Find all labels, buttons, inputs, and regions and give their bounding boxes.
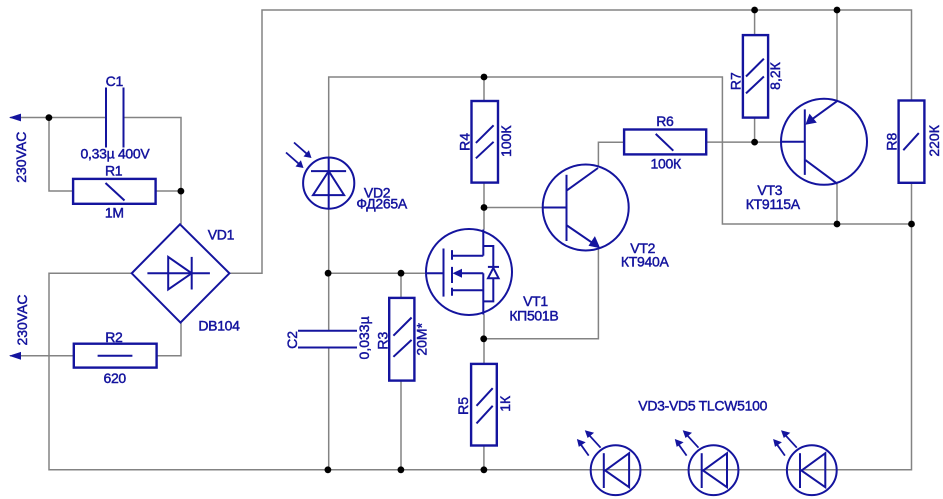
- wire: R4 top lead: [483, 77, 485, 101]
- MOSFET VT1: [426, 229, 512, 315]
- wire: AC input 2 to R2 left: [10, 355, 74, 357]
- capacitor C1: [106, 88, 124, 148]
- svg-text:100К: 100К: [651, 156, 682, 172]
- resistor R5: [471, 364, 497, 446]
- svg-text:220К: 220К: [926, 124, 942, 156]
- svg-text:C2: C2: [284, 331, 300, 349]
- svg-text:100К: 100К: [498, 125, 514, 157]
- node R7/R6/VT3 base: [751, 139, 758, 146]
- transistor VT3: [781, 99, 867, 185]
- node AC1/C1 left: [46, 114, 53, 121]
- resistor R8: [899, 101, 925, 183]
- svg-text:КТ940А: КТ940А: [621, 254, 670, 270]
- resistor R1: [73, 179, 156, 204]
- svg-text:R3: R3: [374, 332, 390, 350]
- wire: R1 right lead: [156, 190, 181, 192]
- svg-text:ФД265А: ФД265А: [356, 196, 408, 212]
- wire: R1 left leg: [49, 118, 73, 192]
- svg-text:КП501В: КП501В: [509, 307, 558, 323]
- photodiode VD2: [286, 143, 354, 209]
- LED VD5: [773, 430, 837, 495]
- svg-text:R2: R2: [105, 329, 123, 345]
- wire: mid rail y=77 from VD2 top, right end down to y=224 rail to R8 bottom: [329, 77, 912, 224]
- AC arrow 2: [9, 352, 21, 360]
- wire: R4 bottom to VT1 drain: [483, 183, 485, 230]
- LED VD4: [675, 430, 739, 495]
- node R3 bottom on bottom rail: [398, 466, 405, 473]
- wire: gate wire node to VT1: [328, 272, 427, 274]
- node C2 bottom on bottom rail: [325, 466, 332, 473]
- resistor R4: [472, 101, 499, 183]
- wire: VT3 emitter to top rail: [836, 10, 838, 100]
- node R7 top on top rail: [751, 7, 758, 14]
- svg-text:VD3-VD5 TLCW5100: VD3-VD5 TLCW5100: [638, 398, 767, 414]
- svg-text:1К: 1К: [497, 395, 513, 412]
- node R3 top / gate wire: [398, 270, 405, 277]
- resistor R7: [743, 35, 768, 118]
- bridge rectifier VD1: [132, 224, 230, 322]
- wire: VT2 emitter down and left to source node: [484, 248, 599, 339]
- svg-text:C1: C1: [106, 73, 124, 89]
- svg-text:620: 620: [103, 370, 126, 386]
- wire: drain node to VT2 base: [484, 207, 543, 209]
- wire: VT3 collector to y=224 rail: [836, 184, 838, 225]
- AC arrow 1: [9, 114, 21, 122]
- node R4 top on mid rail: [481, 74, 488, 81]
- wire: R8 bottom to bottom rail, bottom rail to left riser up to bridge left vertex: [49, 183, 912, 470]
- node R4 bottom / VT1 drain / VT2 base: [481, 204, 488, 211]
- svg-text:R1: R1: [105, 163, 123, 179]
- resistor R6: [624, 130, 706, 155]
- svg-text:VD1: VD1: [208, 227, 235, 243]
- svg-text:20M*: 20M*: [414, 322, 430, 355]
- wire: bridge right vertex up to top rail and down to R8 top: [229, 10, 911, 273]
- svg-text:R7: R7: [727, 72, 743, 90]
- svg-text:R6: R6: [656, 113, 674, 129]
- resistor R3: [389, 298, 414, 381]
- node VT3 collector on y=224 rail: [834, 221, 841, 228]
- node C1 right / R1 right / bridge top: [178, 188, 185, 195]
- svg-text:R8: R8: [884, 133, 900, 151]
- svg-text:1M: 1M: [105, 205, 124, 221]
- wire: R3 bottom lead to bottom rail: [400, 381, 402, 470]
- node VD2 / gate wire: [325, 270, 332, 277]
- wire: R6 right to VT3 base: [706, 141, 781, 143]
- node VT3 emitter on top rail: [834, 7, 841, 14]
- wire: R3 top lead: [400, 273, 402, 298]
- svg-text:0,33µ 400V: 0,33µ 400V: [81, 146, 151, 162]
- svg-text:8,2К: 8,2К: [767, 61, 783, 89]
- wire: R2 right to bridge bottom vertex: [156, 323, 181, 356]
- wire: R5 bottom to bottom rail: [483, 446, 485, 470]
- node VT1 source / VT2 emitter / R5: [480, 335, 487, 342]
- svg-text:230VAC: 230VAC: [14, 294, 30, 345]
- node R8 bottom on y=224 rail: [908, 221, 915, 228]
- svg-text:R4: R4: [457, 133, 473, 151]
- wire: AC input 1 to C1 left plate: [10, 117, 106, 119]
- LED VD3: [577, 430, 641, 495]
- wire: C1 right plate to bridge top vertex: [124, 118, 181, 225]
- wire: VD2 bottom to C2 top plate: [328, 209, 330, 331]
- resistor R2: [74, 344, 157, 368]
- node R5 bottom on bottom rail: [481, 466, 488, 473]
- transistor VT2: [543, 165, 629, 251]
- svg-text:230VAC: 230VAC: [13, 132, 29, 183]
- capacitor C2: [298, 331, 357, 348]
- svg-text:КТ9115А: КТ9115А: [746, 196, 801, 212]
- wire: R7 bottom lead: [754, 118, 756, 143]
- wire: R7 top lead: [754, 10, 756, 35]
- svg-text:DB104: DB104: [198, 317, 240, 333]
- wire: VT2 collector up to R6 left: [598, 142, 624, 167]
- wire: C2 bottom plate to bottom rail: [328, 348, 330, 470]
- svg-text:R5: R5: [455, 397, 471, 415]
- wire: VT1 source down to R5 top: [483, 315, 485, 364]
- svg-text:0,033µ: 0,033µ: [356, 316, 372, 359]
